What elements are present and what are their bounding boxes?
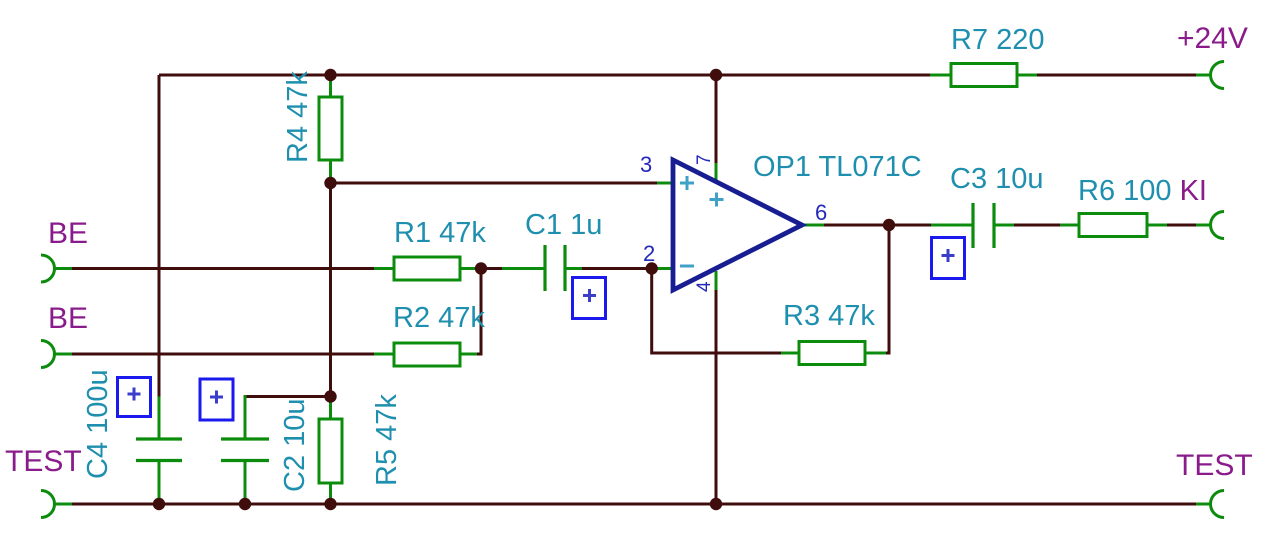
- svg-text:6: 6: [815, 200, 827, 225]
- wire C4 leads: [158, 397, 161, 440]
- svg-text:7: 7: [694, 154, 715, 165]
- junction top rail pin7: [710, 69, 722, 81]
- capacitor C4 plates: [136, 439, 182, 461]
- wire top rail green leads R7: [930, 74, 1211, 77]
- resistor R4: [319, 97, 342, 160]
- op-amp internal plus mark: [710, 193, 724, 207]
- wire pin6 output: [802, 224, 824, 227]
- polarity box C3: [932, 238, 965, 279]
- svg-text:R6 100 KI: R6 100 KI: [1078, 175, 1207, 207]
- op-amp minus input mark: [680, 265, 694, 268]
- capacitor C1 plates: [545, 245, 565, 291]
- wire C2 branch: [245, 395, 331, 398]
- svg-text:C4 100u: C4 100u: [82, 369, 114, 479]
- polarity box C4: [118, 378, 151, 417]
- svg-text:C3 10u: C3 10u: [950, 163, 1044, 195]
- wire op-amp V+ pin7: [715, 75, 718, 163]
- polarity box C2: [200, 379, 233, 420]
- wire BE1 row: [54, 267, 72, 270]
- junction output node: [883, 219, 895, 231]
- svg-text:R2 47k: R2 47k: [393, 302, 485, 334]
- op-amp U1 triangle: [673, 160, 802, 290]
- wire vertical mid x330: [329, 75, 332, 183]
- junction bottom C2: [239, 498, 251, 510]
- svg-text:R5 47k: R5 47k: [371, 394, 403, 486]
- svg-text:TEST: TEST: [1176, 449, 1253, 482]
- connector TEST left: [41, 491, 55, 518]
- connector KI output: [1211, 212, 1224, 239]
- wire C3 to R6: [994, 224, 1014, 227]
- junction bottom C4: [153, 498, 165, 510]
- junction top rail R4: [324, 69, 336, 81]
- svg-text:BE: BE: [48, 217, 88, 250]
- svg-text:TEST: TEST: [5, 445, 82, 478]
- wire feedback loop: [652, 269, 781, 354]
- wire op-amp V- pin4: [715, 271, 718, 290]
- resistor R2: [394, 343, 460, 366]
- svg-text:R7 220: R7 220: [951, 24, 1045, 56]
- junction R4 bottom node: [324, 177, 336, 189]
- connector BE2: [41, 341, 55, 368]
- wire bottom rail: [54, 503, 72, 506]
- resistor R1: [394, 257, 460, 280]
- svg-text:C1 1u: C1 1u: [525, 209, 602, 241]
- svg-text:3: 3: [640, 152, 652, 177]
- svg-text:OP1 TL071C: OP1 TL071C: [753, 151, 922, 183]
- wire pin3: [331, 182, 658, 185]
- resistor R6: [1079, 214, 1147, 237]
- connector +24V: [1211, 62, 1225, 89]
- capacitor C2 plates: [221, 439, 269, 461]
- resistor R7: [951, 64, 1017, 87]
- polarity box C1: [573, 278, 606, 319]
- svg-text:4: 4: [694, 281, 715, 292]
- junction pin2 node: [646, 262, 658, 274]
- capacitor C3 plates: [973, 203, 994, 248]
- resistor R3: [799, 342, 865, 365]
- svg-text:R1 47k: R1 47k: [394, 217, 486, 249]
- connector BE1: [41, 255, 55, 282]
- svg-text:+24V: +24V: [1177, 22, 1248, 55]
- op-amp plus input mark: [680, 176, 694, 190]
- svg-text:2: 2: [643, 241, 655, 266]
- wire top rail: [159, 75, 1196, 397]
- svg-text:BE: BE: [48, 302, 88, 335]
- junction bottom pin4: [710, 498, 722, 510]
- junction R1 R2 C1 node: [475, 262, 487, 274]
- svg-text:R4 47k: R4 47k: [282, 71, 314, 163]
- svg-text:R3 47k: R3 47k: [783, 300, 875, 332]
- svg-text:C2 10u: C2 10u: [279, 398, 311, 492]
- junction bottom R5: [324, 498, 336, 510]
- resistor R5: [319, 419, 342, 483]
- wire BE2 row: [54, 353, 72, 356]
- junction R5 C2 node: [324, 390, 336, 402]
- connector TEST right: [1211, 491, 1225, 518]
